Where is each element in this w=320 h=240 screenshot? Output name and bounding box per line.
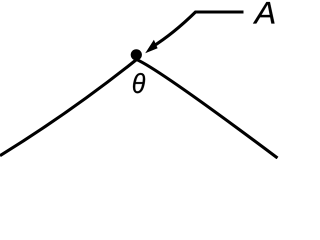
label theta: [133, 73, 145, 93]
leader line to A: [152, 12, 244, 47]
vertex dot: [131, 49, 142, 60]
arrowhead: [145, 40, 157, 54]
label A: [253, 2, 275, 23]
left leg line: [0, 60, 137, 156]
right leg line: [137, 60, 278, 159]
